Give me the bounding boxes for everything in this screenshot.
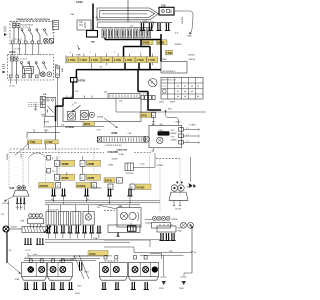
svg-text:4O/7: 4O/7 [171,130,175,132]
svg-text:S-4/B: S-4/B [119,154,125,156]
svg-text:x x: x x [53,32,55,34]
svg-text:M/B: M/B [21,221,25,223]
svg-text:1: 1 [114,52,115,54]
svg-text:1 YGN: 1 YGN [125,59,132,62]
svg-text:24WB: 24WB [87,163,94,166]
svg-text:1 B/SD: 1 B/SD [175,122,182,124]
svg-text:4 1 3 5: 4 1 3 5 [142,94,148,96]
svg-text:1: 1 [140,52,141,54]
svg-text:1/6: 1/6 [100,67,103,69]
svg-text:R/BN: R/BN [112,132,118,135]
svg-text:2/8CM: 2/8CM [188,55,195,57]
svg-text:2/4T/SD: 2/4T/SD [126,173,134,175]
svg-text:1 YGN: 1 YGN [148,59,155,62]
svg-text:1 2 3 4 5 6: 1 2 3 4 5 6 [22,27,31,29]
svg-text:2/4T/B(B): 2/4T/B(B) [92,188,102,190]
svg-text:FW/5A/3O/AL/3O/15/3O/A: FW/5A/3O/AL/3O/15/3O/A [17,18,50,22]
svg-text:24T/B: 24T/B [78,79,85,83]
svg-text:MC/SD/B/SIO: MC/SD/B/SIO [163,71,176,73]
svg-text:2/4WA: 2/4WA [97,116,104,119]
svg-text:1 Y/BSS: 1 Y/BSS [189,125,197,127]
svg-text:3/N: 3/N [169,251,173,253]
svg-text:U/B4/C/B6: U/B4/C/B6 [117,148,128,151]
svg-text:2/8M: 2/8M [162,59,167,61]
svg-text:C/Pk: C/Pk [9,50,16,54]
svg-text:1 YGN: 1 YGN [136,59,143,62]
svg-text:x A x A x A x A x A: x A x A x A x A x A [104,260,119,263]
svg-text:4: 4 [70,52,71,54]
svg-text:1/6 1/B: 1/6 1/B [175,209,182,211]
svg-text:4Y62: 4Y62 [89,252,96,256]
svg-text:SW/Y: SW/Y [170,102,176,104]
svg-text:24T/KD: 24T/KD [39,185,48,188]
svg-text:1 YGN: 1 YGN [79,59,86,62]
svg-text:Y-BN: Y-BN [166,52,172,55]
svg-text:24T/KD: 24T/KD [77,185,86,188]
svg-text:2/4M: 2/4M [178,228,182,230]
svg-text:12/3A: 12/3A [76,0,83,4]
svg-text:A/B/SW: A/B/SW [181,17,184,24]
svg-text:24T/B: 24T/B [84,123,91,126]
svg-text:1/2 1/2: 1/2 1/2 [25,250,31,252]
svg-text:20: 20 [44,130,46,132]
svg-text:C/B: C/B [161,3,166,7]
svg-text:SW/B5: SW/B5 [175,44,183,46]
svg-text:SW/B2: SW/B2 [171,133,177,135]
svg-text:C B W SD C B W SD: C B W SD C B W SD [105,145,123,147]
svg-text:1 YGN: 1 YGN [28,141,35,144]
svg-text:1 2 3 4 5 6 7: 1 2 3 4 5 6 7 [12,39,22,41]
svg-text:2/8CM: 2/8CM [189,59,196,61]
svg-text:2/4T/B: 2/4T/B [2,203,9,205]
svg-text:24T/B: 24T/B [141,114,148,117]
svg-text:2/4T/B(C): 2/4T/B(C) [146,110,155,112]
svg-text:Y-SD: Y-SD [140,163,145,165]
svg-text:L x x x: L x x x [162,86,167,88]
svg-text:2/4/B: 2/4/B [108,164,114,166]
svg-text:WB: WB [91,42,95,44]
svg-text:S/W/B: S/W/B [172,219,179,221]
svg-text:C/B: C/B [128,133,132,135]
svg-text:Ow-l: Ow-l [33,254,38,256]
svg-text:MFA: MFA [61,68,64,73]
svg-text:M/B/W: M/B/W [6,154,8,160]
svg-text:20: 20 [33,130,35,132]
svg-text:1 YGN: 1 YGN [68,59,75,62]
svg-text:2/4CB: 2/4CB [105,180,112,183]
svg-text:24WB: 24WB [62,177,69,180]
svg-text:24T/B(B): 24T/B(B) [44,127,53,129]
svg-text:S/W: S/W [168,109,172,111]
svg-text:B/W: B/W [20,154,22,158]
svg-text:1/4: 1/4 [74,103,77,105]
svg-text:1 2 3 4 5: 1 2 3 4 5 [20,59,27,61]
svg-text:A0: A0 [152,123,154,126]
svg-text:1 YGN: 1 YGN [91,59,98,62]
svg-text:2/4B: 2/4B [15,279,20,281]
svg-text:2/3A: 2/3A [93,237,98,240]
svg-text:24T/BD: 24T/BD [157,165,165,167]
svg-text:1 YGN: 1 YGN [102,59,109,62]
svg-text:1 YGN: 1 YGN [45,141,52,144]
svg-text:1: 1 [90,52,91,54]
svg-text:C/B/SD: C/B/SD [171,140,178,142]
svg-text:2/4DW: 2/4DW [11,227,17,229]
svg-text:24WB: 24WB [87,177,94,180]
svg-text:24WB: 24WB [62,163,69,166]
svg-text:SW/B: SW/B [143,42,150,45]
svg-text:1/2 2/4 1/2 4/6: 1/2 2/4 1/2 4/6 [47,210,59,212]
svg-text:2/4M: 2/4M [178,231,182,233]
svg-text:1 B/SD: 1 B/SD [186,187,193,189]
svg-text:1 YGN: 1 YGN [114,59,121,62]
svg-text:SW: SW [160,124,163,126]
svg-text:24TB: 24TB [159,102,165,104]
svg-text:S/W: S/W [10,187,15,190]
svg-text:SW POS 0 1 2 3: SW POS 0 1 2 3 [162,80,176,82]
svg-text:30 15: 30 15 [12,22,18,24]
svg-text:S/4/W: S/4/W [112,158,119,160]
svg-text:2/3A: 2/3A [76,54,81,57]
svg-text:OVE/2/W: OVE/2/W [108,151,119,154]
svg-text:15A: 15A [70,13,74,16]
svg-text:4/Y/B2: 4/Y/B2 [137,187,145,190]
svg-text:30 15: 30 15 [10,56,16,58]
svg-text:1/2 2/4: 1/2 2/4 [9,86,15,88]
svg-text:1/2Y 1/6: 1/2Y 1/6 [16,207,23,209]
svg-text:2/4A: 2/4A [187,35,192,38]
svg-text:24T/B: 24T/B [44,122,50,124]
